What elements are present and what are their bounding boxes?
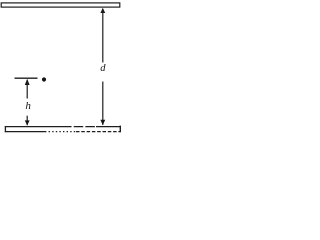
reference line — [15, 77, 38, 79]
svg-text:d: d — [100, 63, 106, 74]
dimension h upper segment — [26, 80, 28, 99]
bottom plate left edge — [4, 126, 6, 132]
particle dot — [42, 77, 46, 81]
bottom plate bottom edge solid part — [5, 131, 45, 133]
bottom plate top edge solid part — [5, 126, 62, 128]
dimension d down arrowhead — [100, 120, 105, 126]
top plate — [1, 3, 120, 7]
bottom plate bottom edge dashed part — [76, 131, 121, 133]
dimension d lower segment — [102, 82, 104, 125]
bottom plate bottom edge dotted part — [45, 131, 76, 133]
dimension h up arrowhead — [25, 79, 30, 85]
dimension h down arrowhead — [25, 120, 30, 125]
dimension h lower segment — [26, 116, 28, 126]
bottom plate right edge — [119, 126, 121, 133]
bottom plate top edge right solid part — [96, 126, 121, 128]
svg-text:h: h — [25, 100, 31, 112]
bottom plate top edge dashed part — [62, 126, 96, 128]
dimension d upper segment — [102, 9, 104, 63]
dimension d up arrowhead — [100, 8, 105, 13]
